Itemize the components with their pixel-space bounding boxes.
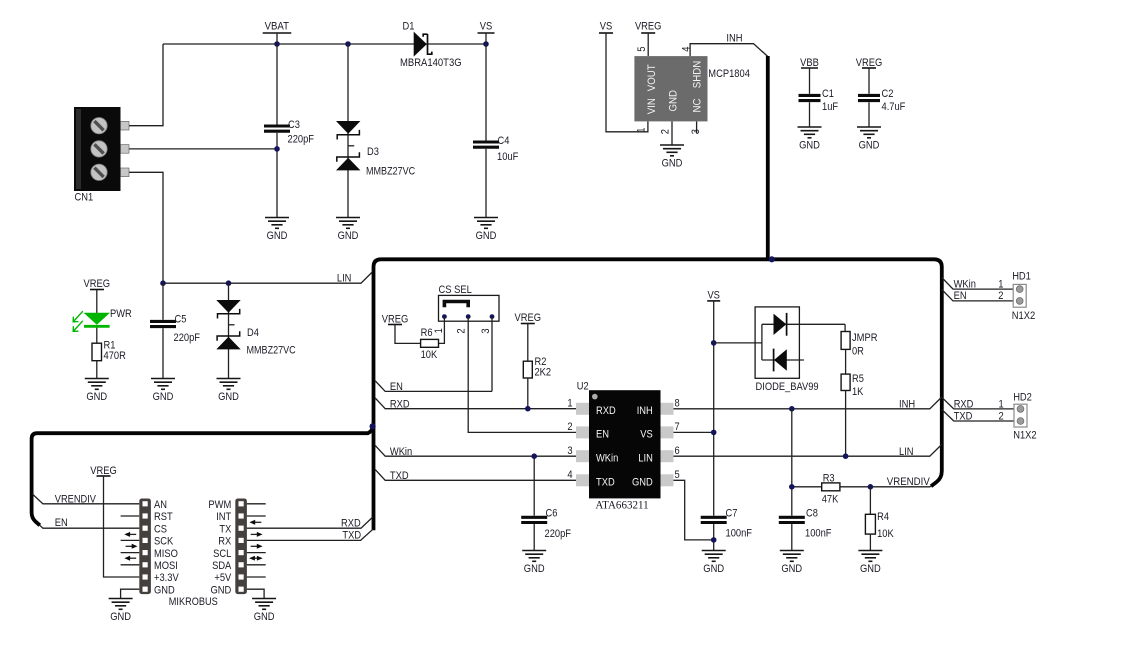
- resistor R5 1K: [841, 374, 850, 390]
- wire RXD (box): [375, 398, 576, 409]
- U2 right pad pin 6: [661, 450, 674, 462]
- svg-text:GND: GND: [153, 391, 174, 403]
- junction thick bus left: [370, 423, 376, 429]
- svg-text:1: 1: [636, 128, 648, 133]
- wire BAV99 to JMPR: [844, 324, 846, 331]
- svg-text:4: 4: [567, 469, 572, 481]
- junction R2/RXD: [525, 406, 531, 412]
- wire LIN row: [163, 273, 372, 284]
- wire pin3 NC stub: [696, 121, 698, 133]
- svg-text:1uF: 1uF: [822, 101, 838, 113]
- svg-text:MIKROBUS: MIKROBUS: [169, 596, 218, 608]
- svg-text:+3.3V: +3.3V: [154, 572, 179, 584]
- wire mikrobus INT stub: [247, 515, 266, 517]
- svg-text:TXD: TXD: [390, 470, 409, 482]
- svg-text:C7: C7: [726, 508, 738, 520]
- svg-text:5: 5: [636, 47, 648, 52]
- svg-text:1: 1: [433, 328, 445, 333]
- ground (C1): [798, 127, 822, 138]
- wire VREG to +3.3V pin: [104, 476, 140, 577]
- wire thick main box outline: [374, 259, 942, 530]
- capacitor C8 100nF: [779, 516, 805, 519]
- diode DIODE_BAV99: [755, 307, 845, 378]
- junction INH/C8: [789, 406, 795, 412]
- U2 right pad pin 5: [661, 474, 674, 486]
- resistor JMPR 0R: [841, 332, 850, 350]
- svg-text:INH: INH: [726, 32, 742, 44]
- wire pin2 GND stub: [671, 121, 673, 145]
- capacitor C7 100nF: [701, 516, 727, 519]
- svg-text:GND: GND: [154, 584, 175, 596]
- svg-text:VREG: VREG: [635, 21, 662, 33]
- capacitor C4: [485, 44, 487, 141]
- resistor R6 10K: [421, 339, 439, 347]
- svg-text:3: 3: [567, 445, 572, 457]
- connector CN1 pin2 wire to GND node: [129, 148, 277, 150]
- wire R2 to RXD: [527, 378, 529, 409]
- svg-text:GND: GND: [859, 140, 880, 152]
- wire U2 pin5 GND: [674, 480, 714, 540]
- svg-text:MBRA140T3G: MBRA140T3G: [400, 57, 462, 69]
- CS SEL pin 3 dot: [490, 314, 495, 319]
- svg-text:4.7uF: 4.7uF: [882, 101, 906, 113]
- wire CS SEL pin3 down to EN net: [491, 317, 493, 392]
- svg-text:JMPR: JMPR: [852, 332, 878, 344]
- svg-text:C8: C8: [806, 508, 818, 520]
- arrow SPI right 1: [126, 544, 138, 549]
- ground (R4): [858, 551, 882, 562]
- svg-text:10uF: 10uF: [497, 151, 519, 163]
- svg-text:LIN: LIN: [899, 446, 914, 458]
- wire VREG to R6: [395, 325, 421, 344]
- svg-text:2K2: 2K2: [535, 366, 552, 378]
- svg-text:220pF: 220pF: [288, 133, 315, 145]
- capacitor C6 220pF on WKin: [533, 456, 535, 516]
- U2 right pad pin 7: [661, 426, 674, 438]
- svg-text:INH: INH: [899, 398, 915, 410]
- svg-text:47K: 47K: [822, 493, 839, 505]
- ground (C2): [857, 127, 881, 138]
- wire EN to HD1: [942, 290, 1013, 301]
- svg-text:VIN: VIN: [646, 98, 658, 114]
- op-amp U1 MCP1804 body: [634, 56, 707, 121]
- svg-text:GND: GND: [667, 90, 679, 112]
- wire VBAT top rail: [163, 43, 486, 45]
- svg-text:100nF: 100nF: [805, 528, 832, 540]
- jumper bracket pins 1-2: [444, 302, 468, 308]
- arrow UART left: [249, 520, 261, 525]
- wire VRENDIV row: [792, 486, 822, 488]
- capacitor C5: [162, 283, 164, 320]
- wire WKin to HD1: [942, 278, 1013, 290]
- svg-text:1K: 1K: [852, 386, 864, 398]
- wire mikrobus MISO stub: [121, 552, 140, 554]
- svg-text:CN1: CN1: [75, 192, 94, 204]
- svg-text:WKin: WKin: [596, 453, 618, 465]
- svg-text:C5: C5: [175, 314, 187, 326]
- wire mikrobus SDA stub: [247, 564, 266, 566]
- svg-text:4: 4: [681, 47, 693, 52]
- svg-text:MMBZ27VC: MMBZ27VC: [247, 344, 296, 356]
- wire U2 pin7 VS: [674, 431, 714, 433]
- wire mikrobus +5V stub: [247, 576, 266, 578]
- svg-text:RXD: RXD: [954, 398, 974, 410]
- svg-text:VS: VS: [600, 21, 613, 33]
- svg-text:ATA663211: ATA663211: [595, 500, 648, 512]
- wire mikrobus right GND: [247, 589, 264, 598]
- svg-text:10K: 10K: [877, 528, 894, 540]
- header HD1: [1013, 284, 1026, 307]
- svg-text:1: 1: [999, 398, 1004, 410]
- wire mikrobus RST stub: [121, 515, 140, 517]
- connector CN1 pin1 wire: [129, 44, 163, 126]
- ground (C4): [474, 218, 498, 229]
- wire JMPR to R5: [845, 349, 847, 374]
- wire LED to R1: [96, 328, 98, 344]
- svg-text:2: 2: [456, 328, 468, 333]
- svg-text:VREG: VREG: [856, 57, 883, 69]
- wire mikrobus PWM stub: [247, 503, 266, 505]
- connector CN1 terminal block: [74, 107, 129, 191]
- junction D4: [226, 280, 232, 286]
- junction thick bus INH: [769, 256, 775, 262]
- svg-text:LIN: LIN: [337, 273, 352, 285]
- header HD2: [1014, 404, 1027, 427]
- wire mikrobus SCK stub: [121, 539, 140, 541]
- resistor R3 47K: [822, 483, 840, 491]
- svg-text:PWR: PWR: [110, 308, 132, 320]
- svg-text:AN: AN: [154, 499, 167, 511]
- svg-text:GND: GND: [703, 563, 724, 575]
- ground (R1): [85, 379, 109, 390]
- junction pin5/C7: [711, 537, 717, 543]
- junction LIN/R5: [843, 453, 849, 459]
- svg-text:+5V: +5V: [214, 572, 231, 584]
- diode D3 MMBZ27VC (dual zener): [347, 44, 349, 218]
- arrow UART right: [251, 532, 263, 537]
- svg-text:GND: GND: [476, 230, 497, 242]
- svg-text:GND: GND: [860, 563, 881, 575]
- svg-text:D4: D4: [247, 327, 259, 339]
- svg-text:5: 5: [675, 469, 680, 481]
- svg-text:RX: RX: [218, 536, 232, 548]
- svg-text:VRENDIV: VRENDIV: [55, 494, 97, 506]
- svg-text:NC: NC: [691, 98, 703, 112]
- svg-text:WKin: WKin: [390, 446, 412, 458]
- wire R4 top: [869, 487, 871, 515]
- wire thick bottom-left bus: [32, 424, 373, 525]
- svg-text:220pF: 220pF: [174, 332, 201, 344]
- wire EN (box): [375, 381, 492, 392]
- svg-text:HD2: HD2: [1013, 391, 1032, 403]
- wire VREG to R2: [527, 324, 529, 362]
- svg-text:N1X2: N1X2: [1013, 430, 1036, 442]
- diode D1 MBRA140T3G: [414, 32, 432, 57]
- svg-text:GND: GND: [338, 230, 359, 242]
- CS SEL pin 2 dot: [466, 314, 471, 319]
- wire R4 bottom: [869, 534, 871, 550]
- svg-text:VREG: VREG: [90, 465, 117, 477]
- junction VS rail: [483, 41, 489, 47]
- svg-text:C4: C4: [498, 135, 510, 147]
- svg-text:R6: R6: [421, 327, 433, 339]
- U2 left pad pin 3: [576, 450, 589, 462]
- svg-text:GND: GND: [662, 158, 683, 170]
- svg-text:D1: D1: [403, 21, 415, 33]
- ground (C7): [702, 551, 726, 562]
- svg-text:TXD: TXD: [596, 477, 615, 489]
- svg-text:C6: C6: [546, 508, 558, 520]
- junction R3/R4: [868, 484, 874, 490]
- svg-text:INT: INT: [216, 511, 231, 523]
- svg-text:RXD: RXD: [390, 398, 410, 410]
- svg-text:WKin: WKin: [954, 278, 976, 290]
- svg-text:2: 2: [998, 290, 1003, 302]
- svg-text:470R: 470R: [104, 350, 126, 362]
- ground (C6): [522, 551, 546, 562]
- svg-text:RXD: RXD: [341, 518, 361, 530]
- wire VREG pin5: [647, 33, 649, 56]
- svg-text:GND: GND: [254, 611, 275, 623]
- svg-text:TXD: TXD: [342, 530, 361, 542]
- wire CS SEL pin2 down to U2 EN: [468, 317, 576, 433]
- U2 right pad pin 8: [661, 403, 674, 415]
- header MIKROBUS right: [235, 499, 247, 595]
- ground (D3): [336, 218, 360, 229]
- arrow SPI left 2: [124, 556, 136, 561]
- svg-text:VREG: VREG: [84, 278, 111, 290]
- wire mikrobus MOSI stub: [121, 564, 140, 566]
- svg-text:10K: 10K: [421, 349, 438, 361]
- svg-text:GND: GND: [799, 140, 820, 152]
- wire C8 vertical: [791, 409, 793, 516]
- svg-text:GND: GND: [110, 611, 131, 623]
- resistor R4 10K: [865, 514, 875, 534]
- svg-text:U2: U2: [577, 380, 589, 392]
- transistor U2 ATA663211 body: [589, 390, 661, 498]
- svg-text:HD1: HD1: [1012, 270, 1031, 282]
- svg-text:GND: GND: [267, 230, 288, 242]
- svg-text:TX: TX: [219, 523, 231, 535]
- CS SEL pin 1 dot: [442, 314, 447, 319]
- wire mikrobus SCL stub: [247, 552, 266, 554]
- svg-text:EN: EN: [596, 429, 609, 441]
- wire VRENDIV to mikrobus AN: [32, 494, 139, 504]
- svg-text:D3: D3: [367, 146, 379, 158]
- wire TXD (box): [375, 470, 576, 481]
- ground (mikrobus right): [252, 599, 276, 610]
- header MIKROBUS left: [139, 499, 151, 595]
- junction C6/WKin: [531, 453, 537, 459]
- ground (D4): [217, 379, 241, 390]
- svg-text:1: 1: [998, 278, 1003, 290]
- arrow SPI left 1: [124, 532, 136, 537]
- svg-text:GND: GND: [218, 391, 239, 403]
- diode D4 MMBZ27VC (dual zener): [228, 283, 230, 378]
- LED PWR: [73, 311, 110, 331]
- svg-text:2: 2: [567, 421, 572, 433]
- resistor R2 2K2: [523, 361, 532, 378]
- svg-text:0R: 0R: [852, 345, 864, 357]
- header CS SEL box: [439, 295, 500, 321]
- wire RXD to HD2: [942, 397, 1014, 409]
- junction VS/pin7: [711, 430, 717, 436]
- svg-text:INH: INH: [637, 405, 653, 417]
- arrow I2C both: [249, 556, 263, 561]
- wire WKin (box): [375, 446, 576, 457]
- svg-text:TXD: TXD: [954, 411, 973, 423]
- wire BAV99 to VS: [714, 342, 762, 344]
- svg-text:8: 8: [675, 398, 680, 410]
- wire INH pin4: [690, 44, 768, 57]
- svg-text:EN: EN: [954, 290, 967, 302]
- svg-text:VS: VS: [640, 429, 653, 441]
- junction C8/VRENDIV: [789, 484, 795, 490]
- ground (MCP1804): [660, 145, 684, 156]
- U2 left pad pin 1: [576, 403, 589, 415]
- svg-text:RXD: RXD: [596, 405, 616, 417]
- svg-text:SCK: SCK: [154, 536, 174, 548]
- junction C3/CN1 pin2: [274, 146, 280, 152]
- wire EN to mikrobus CS: [40, 525, 140, 528]
- svg-text:GND: GND: [211, 584, 232, 596]
- junction VS/BAV99: [711, 340, 717, 346]
- svg-text:VBB: VBB: [800, 57, 819, 69]
- svg-text:C3: C3: [288, 119, 300, 131]
- svg-text:C1: C1: [822, 88, 834, 100]
- svg-text:MISO: MISO: [154, 548, 178, 560]
- svg-text:PWM: PWM: [208, 499, 231, 511]
- svg-text:MMBZ27VC: MMBZ27VC: [366, 166, 415, 178]
- capacitor C2 4.7uF: [868, 68, 870, 94]
- svg-text:SDA: SDA: [212, 560, 232, 572]
- svg-text:RST: RST: [154, 511, 173, 523]
- wire CS SEL pin1 to R6: [439, 317, 445, 344]
- svg-text:R5: R5: [852, 373, 864, 385]
- svg-text:VREG: VREG: [382, 313, 409, 325]
- ground (C8): [780, 551, 804, 562]
- svg-text:LIN: LIN: [638, 453, 653, 465]
- svg-text:EN: EN: [55, 517, 68, 529]
- svg-text:6: 6: [675, 445, 680, 457]
- svg-text:220pF: 220pF: [545, 528, 572, 540]
- svg-text:GND: GND: [86, 391, 107, 403]
- U2 left pad pin 2: [576, 426, 589, 438]
- wire mikrobus left GND: [121, 589, 140, 598]
- arrow I2C right: [251, 544, 263, 549]
- wire TXD to HD2: [942, 410, 1014, 422]
- svg-text:100nF: 100nF: [726, 528, 753, 540]
- svg-text:2: 2: [999, 411, 1004, 423]
- wire INH row (pin8): [674, 397, 942, 409]
- wire R5 to LIN: [845, 391, 847, 457]
- svg-text:GND: GND: [524, 563, 545, 575]
- ground (C3): [265, 218, 289, 229]
- svg-text:SCL: SCL: [213, 548, 231, 560]
- svg-text:VRENDIV: VRENDIV: [887, 476, 931, 488]
- wire mikrobus RX to TXD bus: [247, 529, 373, 540]
- svg-text:SHDN: SHDN: [691, 61, 703, 88]
- junction VBAT: [274, 41, 280, 47]
- svg-text:MOSI: MOSI: [154, 560, 178, 572]
- svg-text:VS: VS: [707, 290, 720, 302]
- ground (C5): [151, 379, 175, 390]
- svg-text:VOUT: VOUT: [646, 64, 658, 91]
- capacitor C3: [276, 44, 278, 125]
- resistor R1 470R: [92, 343, 102, 361]
- svg-text:1: 1: [567, 398, 572, 410]
- svg-text:7: 7: [675, 421, 680, 433]
- wire VS vertical / C7: [713, 301, 715, 516]
- svg-text:GND: GND: [632, 477, 653, 489]
- capacitor C1 1uF: [809, 68, 811, 94]
- svg-text:VREG: VREG: [515, 312, 542, 324]
- wire VS to pin1: [606, 33, 648, 132]
- svg-text:CS SEL: CS SEL: [439, 284, 472, 296]
- svg-text:R4: R4: [877, 511, 889, 523]
- wire LIN row (pin6): [674, 444, 942, 456]
- svg-text:CS: CS: [154, 523, 167, 535]
- svg-text:3: 3: [480, 328, 492, 333]
- ground (mikrobus left): [109, 599, 133, 610]
- svg-text:DIODE_BAV99: DIODE_BAV99: [756, 381, 819, 393]
- svg-text:GND: GND: [781, 563, 802, 575]
- svg-text:EN: EN: [390, 381, 403, 393]
- svg-text:VBAT: VBAT: [265, 21, 290, 33]
- svg-text:C2: C2: [882, 88, 894, 100]
- svg-text:MCP1804: MCP1804: [708, 68, 750, 80]
- junction C5: [160, 280, 166, 286]
- wire mikrobus TX to RXD bus: [247, 517, 373, 528]
- connector CN1 pin3 wire to LIN node: [129, 172, 163, 283]
- svg-text:N1X2: N1X2: [1012, 310, 1035, 322]
- svg-text:2: 2: [660, 129, 672, 134]
- U2 left pad pin 4: [576, 474, 589, 486]
- junction D3 rail: [345, 41, 351, 47]
- svg-text:R3: R3: [823, 472, 835, 484]
- svg-text:3: 3: [690, 129, 702, 134]
- svg-text:VS: VS: [480, 21, 493, 33]
- wire thick INH bus vertical: [766, 56, 770, 259]
